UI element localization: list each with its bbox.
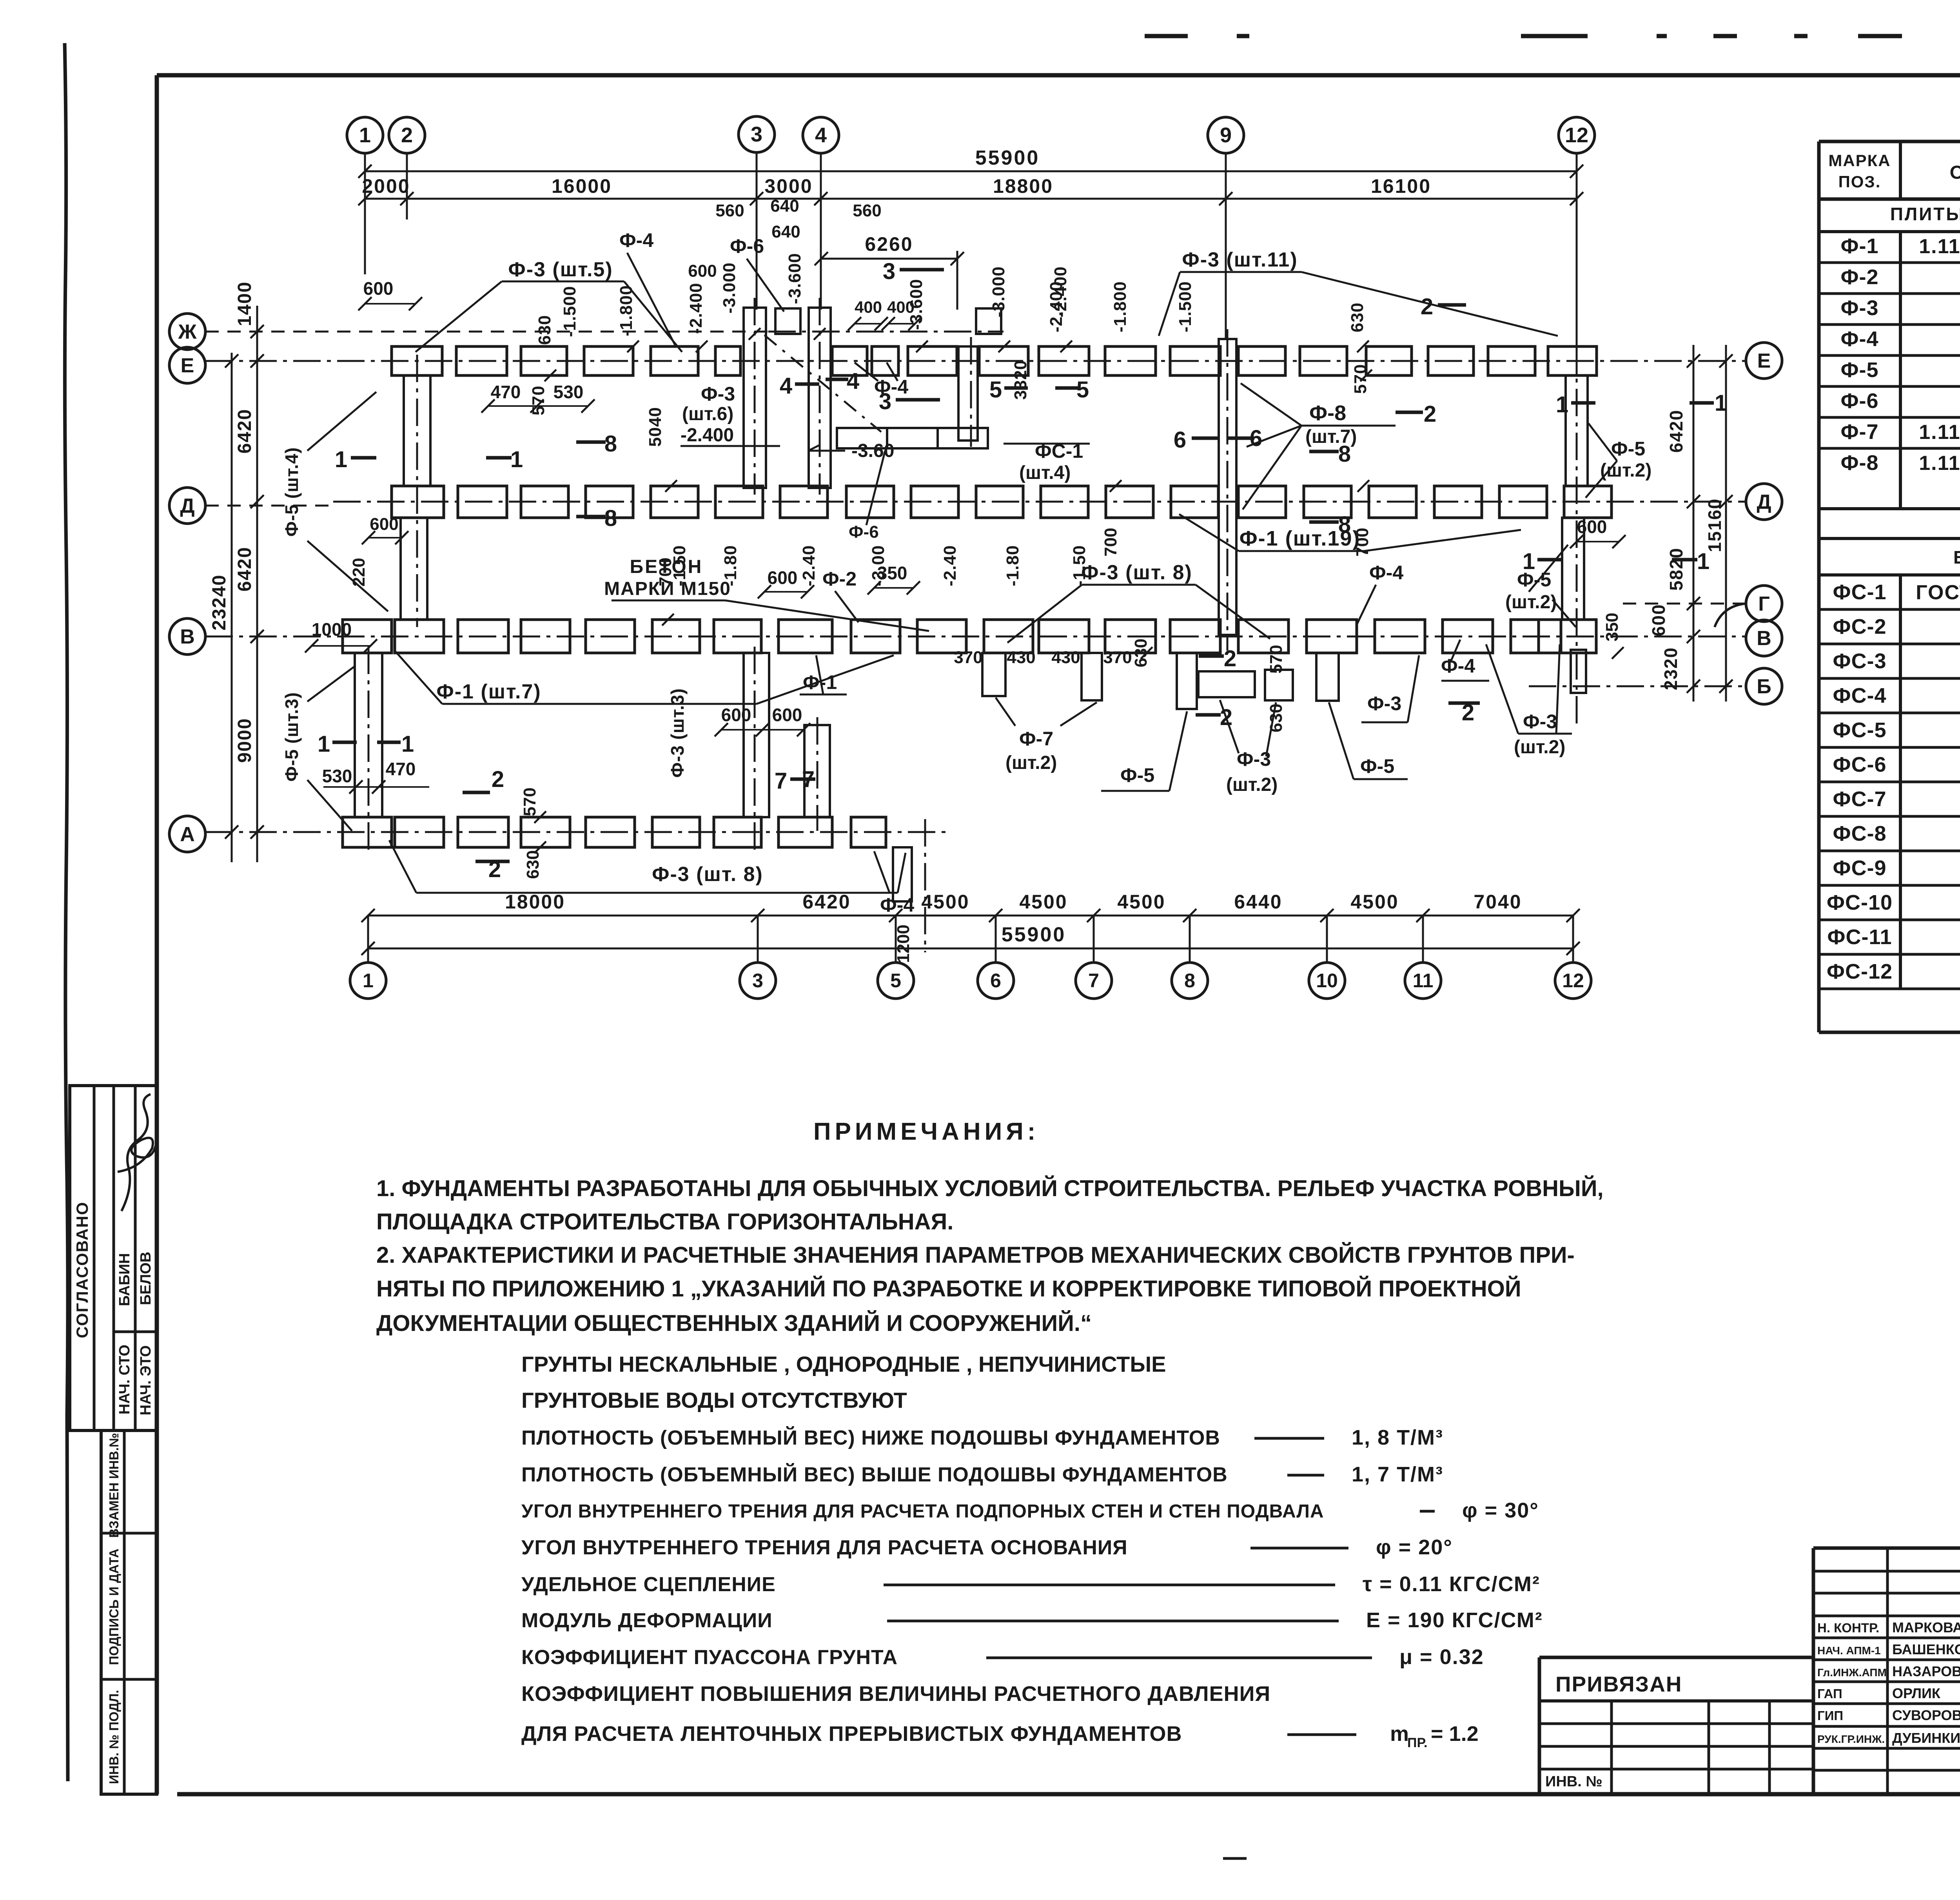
svg-text:220: 220: [349, 558, 368, 586]
svg-text:640: 640: [770, 196, 799, 216]
svg-text:10: 10: [1316, 970, 1338, 992]
svg-text:6420: 6420: [234, 547, 255, 592]
svg-text:-3.000: -3.000: [989, 266, 1008, 317]
svg-text:12: 12: [1565, 123, 1588, 147]
svg-text:НАЧ. АПМ-1: НАЧ. АПМ-1: [1817, 1644, 1881, 1657]
svg-text:1400: 1400: [234, 281, 255, 326]
svg-text:470: 470: [491, 382, 521, 402]
svg-text:НАЗАРОВ: НАЗАРОВ: [1892, 1663, 1960, 1679]
svg-text:6260: 6260: [865, 233, 913, 255]
svg-text:4: 4: [847, 368, 859, 394]
svg-text:4500: 4500: [1350, 891, 1399, 913]
svg-text:350: 350: [877, 563, 907, 583]
svg-text:12: 12: [1562, 970, 1584, 992]
svg-text:Ф-3 (шт.3): Ф-3 (шт.3): [667, 688, 688, 778]
svg-text:В: В: [1757, 627, 1771, 650]
svg-text:Ф-6: Ф-6: [849, 522, 879, 542]
svg-text:11: 11: [1413, 970, 1434, 992]
svg-text:А: А: [180, 823, 195, 846]
svg-text:1.112-5 вып. 1: 1.112-5 вып. 1: [1919, 235, 1960, 258]
svg-text:ИНВ. №: ИНВ. №: [1545, 1773, 1602, 1790]
svg-text:СОГЛАСОВАНО: СОГЛАСОВАНО: [73, 1202, 91, 1338]
svg-text:-1.800: -1.800: [617, 285, 636, 336]
svg-text:УГОЛ ВНУТРЕННЕГО ТРЕНИЯ ДЛЯ: УГОЛ ВНУТРЕННЕГО ТРЕНИЯ ДЛЯ РАСЧЕТА ОСНО…: [521, 1536, 1128, 1559]
svg-text:Ф-3 (шт.5): Ф-3 (шт.5): [508, 258, 613, 281]
svg-text:1: 1: [1715, 390, 1727, 416]
svg-text:m: m: [1390, 1722, 1409, 1746]
svg-text:Ф-4: Ф-4: [1369, 562, 1403, 584]
svg-text:φ = 30°: φ = 30°: [1462, 1499, 1539, 1522]
svg-text:БЕТОН: БЕТОН: [630, 557, 703, 577]
svg-text:8: 8: [1338, 441, 1351, 467]
svg-text:ФС-7: ФС-7: [1833, 787, 1886, 811]
svg-text:4: 4: [780, 373, 792, 399]
svg-text:-1.500: -1.500: [560, 286, 579, 337]
svg-text:600: 600: [1577, 517, 1607, 537]
svg-text:630: 630: [523, 850, 543, 879]
svg-text:Ф-4: Ф-4: [880, 894, 914, 916]
svg-text:Ф-7: Ф-7: [1840, 420, 1878, 444]
svg-text:Ф-3 (шт.11): Ф-3 (шт.11): [1182, 248, 1298, 271]
svg-text:ФС-4: ФС-4: [1833, 684, 1886, 707]
svg-text:5: 5: [890, 970, 901, 992]
svg-text:Ф-4: Ф-4: [619, 229, 653, 251]
svg-text:1. ФУНДАМЕНТЫ РАЗРАБОТАНЫ ДЛ: 1. ФУНДАМЕНТЫ РАЗРАБОТАНЫ ДЛЯ ОБЫЧНЫХ УС…: [376, 1176, 1604, 1201]
svg-text:2: 2: [401, 123, 413, 147]
svg-text:16000: 16000: [552, 175, 612, 197]
svg-text:1, 7 Т/М³: 1, 7 Т/М³: [1352, 1463, 1443, 1486]
svg-text:ПОДПИСЬ И ДАТА: ПОДПИСЬ И ДАТА: [107, 1548, 121, 1665]
svg-text:Ф-3: Ф-3: [1367, 693, 1401, 714]
svg-text:Ф-4: Ф-4: [1840, 327, 1878, 351]
svg-text:Ф-5 (шт.4): Ф-5 (шт.4): [281, 447, 302, 537]
svg-text:Ф-3: Ф-3: [1237, 748, 1271, 770]
svg-text:КОЭФФИЦИЕНТ ПОВЫШЕНИЯ ВЕЛИЧИ: КОЭФФИЦИЕНТ ПОВЫШЕНИЯ ВЕЛИЧИНЫ РАСЧЕТНОГ…: [521, 1682, 1270, 1706]
svg-text:Ф-5: Ф-5: [1360, 755, 1394, 777]
svg-text:Ф-7: Ф-7: [1019, 728, 1053, 750]
svg-text:5820: 5820: [1666, 548, 1686, 591]
svg-text:БЕЛОВ: БЕЛОВ: [138, 1252, 154, 1305]
svg-text:-2.400: -2.400: [686, 283, 706, 334]
svg-text:МАРКИ М150: МАРКИ М150: [604, 578, 731, 599]
svg-text:ИНВ. № ПОДЛ.: ИНВ. № ПОДЛ.: [107, 1690, 121, 1784]
svg-text:470: 470: [386, 759, 416, 779]
svg-text:1.112-5 вып. 2: 1.112-5 вып. 2: [1919, 421, 1960, 444]
svg-text:ДУБИНКИН: ДУБИНКИН: [1892, 1730, 1960, 1746]
svg-text:430: 430: [1051, 648, 1080, 667]
svg-text:Е: Е: [181, 354, 194, 377]
svg-text:600: 600: [768, 567, 798, 588]
svg-text:-1.80: -1.80: [1003, 545, 1022, 586]
svg-text:Ф-4: Ф-4: [1441, 655, 1475, 677]
svg-text:ГРУНТЫ НЕСКАЛЬНЫЕ , ОДНОРОДНЫ: ГРУНТЫ НЕСКАЛЬНЫЕ , ОДНОРОДНЫЕ , НЕПУЧИН…: [521, 1352, 1166, 1376]
svg-text:1: 1: [510, 447, 523, 472]
svg-text:ГРУНТОВЫЕ ВОДЫ ОТСУТСТВУЮТ: ГРУНТОВЫЕ ВОДЫ ОТСУТСТВУЮТ: [521, 1388, 907, 1412]
svg-text:Гл.ИНЖ.АПМ: Гл.ИНЖ.АПМ: [1817, 1666, 1887, 1679]
svg-text:Ф-2: Ф-2: [1840, 265, 1878, 289]
svg-text:2: 2: [1220, 705, 1232, 730]
svg-text:570: 570: [1267, 645, 1286, 673]
svg-text:3320: 3320: [1011, 360, 1030, 400]
svg-text:ПОЗ.: ПОЗ.: [1838, 172, 1881, 191]
svg-text:(шт.6): (шт.6): [682, 404, 733, 424]
svg-text:1: 1: [1556, 392, 1568, 417]
svg-text:Ф-6: Ф-6: [730, 235, 764, 257]
svg-text:2000: 2000: [362, 175, 410, 197]
svg-text:370: 370: [954, 648, 982, 667]
svg-text:430: 430: [1007, 648, 1035, 667]
svg-text:φ = 20°: φ = 20°: [1376, 1536, 1453, 1559]
svg-text:ОРЛИК: ОРЛИК: [1892, 1685, 1941, 1701]
svg-text:МАРКА: МАРКА: [1828, 151, 1891, 170]
svg-text:1: 1: [318, 731, 330, 757]
svg-text:Н. КОНТР.: Н. КОНТР.: [1817, 1621, 1879, 1635]
svg-text:6420: 6420: [234, 409, 255, 454]
svg-text:1000: 1000: [312, 619, 352, 640]
svg-text:Ф-5: Ф-5: [1611, 438, 1645, 460]
svg-text:СУВОРОВ: СУВОРОВ: [1892, 1707, 1960, 1723]
svg-text:630: 630: [1348, 303, 1367, 332]
svg-text:3: 3: [879, 389, 891, 414]
svg-text:-1.500: -1.500: [1176, 281, 1195, 332]
svg-text:Ф-5: Ф-5: [1840, 358, 1878, 382]
svg-text:Ф-2: Ф-2: [822, 568, 857, 590]
svg-text:-2.400: -2.400: [1047, 281, 1066, 332]
svg-text:1: 1: [335, 447, 347, 472]
svg-text:Ф-5: Ф-5: [1120, 764, 1154, 786]
svg-text:Ф-3 (шт. 8): Ф-3 (шт. 8): [652, 863, 763, 886]
svg-text:(шт.4): (шт.4): [1019, 462, 1071, 483]
svg-text:6440: 6440: [1234, 891, 1282, 913]
svg-text:ПЛИТЫ ЖЕЛЕЗОБЕТОННЫЕ ДЛЯ ЛЕ: ПЛИТЫ ЖЕЛЕЗОБЕТОННЫЕ ДЛЯ ЛЕНТОЧНЫХ ФУНДА…: [1890, 204, 1960, 224]
svg-text:ФС-2: ФС-2: [1833, 615, 1886, 638]
svg-text:ВЗАМЕН ИНВ.№: ВЗАМЕН ИНВ.№: [107, 1433, 121, 1538]
svg-text:1: 1: [359, 123, 371, 147]
svg-text:Б: Б: [1757, 675, 1771, 698]
svg-text:ФС-1: ФС-1: [1833, 580, 1886, 604]
svg-text:8: 8: [1184, 970, 1195, 992]
svg-text:Е = 190 КГС/СМ²: Е = 190 КГС/СМ²: [1366, 1608, 1543, 1632]
svg-text:(шт.2): (шт.2): [1514, 737, 1565, 758]
svg-text:ФС-9: ФС-9: [1833, 856, 1886, 880]
svg-text:600: 600: [772, 705, 802, 725]
svg-text:Ф-3 (шт. 8): Ф-3 (шт. 8): [1081, 561, 1192, 584]
svg-text:Ф-1: Ф-1: [1840, 234, 1878, 258]
svg-text:6: 6: [1174, 427, 1186, 453]
svg-text:3: 3: [751, 123, 762, 146]
svg-text:Ф-5 (шт.3): Ф-5 (шт.3): [281, 692, 302, 782]
svg-text:18800: 18800: [993, 175, 1053, 197]
svg-text:ГОСТ 13579-78: ГОСТ 13579-78: [1916, 581, 1960, 604]
svg-text:3000: 3000: [764, 175, 813, 197]
svg-text:8: 8: [604, 506, 617, 531]
svg-text:640: 640: [771, 222, 800, 241]
svg-text:μ = 0.32: μ = 0.32: [1399, 1645, 1484, 1669]
svg-text:55900: 55900: [975, 147, 1040, 169]
svg-text:-3.600: -3.600: [907, 279, 926, 330]
svg-text:570: 570: [520, 787, 539, 816]
svg-text:УДЕЛЬНОЕ СЦЕПЛЕНИЕ: УДЕЛЬНОЕ СЦЕПЛЕНИЕ: [521, 1573, 776, 1596]
svg-text:ПРИВЯЗАН: ПРИВЯЗАН: [1555, 1672, 1682, 1696]
svg-text:6: 6: [990, 970, 1001, 992]
svg-text:Ф-8: Ф-8: [1309, 401, 1346, 425]
svg-text:НАЧ. ЭТО: НАЧ. ЭТО: [138, 1345, 154, 1416]
svg-text:1: 1: [1697, 549, 1710, 574]
svg-text:4500: 4500: [1019, 891, 1067, 913]
svg-text:370: 370: [1103, 648, 1132, 667]
svg-text:1.112-5 вып. 4: 1.112-5 вып. 4: [1919, 452, 1960, 475]
svg-text:7040: 7040: [1474, 891, 1522, 913]
svg-text:2: 2: [1424, 401, 1436, 427]
svg-text:= 1.2: = 1.2: [1431, 1722, 1479, 1746]
svg-text:600: 600: [688, 261, 717, 281]
svg-text:-1.800: -1.800: [1111, 281, 1130, 332]
svg-text:-3.60: -3.60: [851, 441, 894, 461]
svg-text:МАРКОВА: МАРКОВА: [1892, 1619, 1960, 1635]
svg-text:ФС-11: ФС-11: [1827, 925, 1892, 949]
svg-text:2: 2: [492, 767, 504, 792]
svg-text:350: 350: [1602, 613, 1622, 641]
svg-text:(шт.2): (шт.2): [1505, 592, 1557, 613]
svg-text:Ж: Ж: [178, 321, 197, 343]
svg-text:5: 5: [989, 377, 1002, 402]
svg-text:2. ХАРАКТЕРИСТИКИ И РАСЧЕТНЫ: 2. ХАРАКТЕРИСТИКИ И РАСЧЕТНЫЕ ЗНАЧЕНИЯ П…: [376, 1242, 1575, 1268]
svg-text:ДОКУМЕНТАЦИИ ОБЩЕСТВЕННЫХ ЗД: ДОКУМЕНТАЦИИ ОБЩЕСТВЕННЫХ ЗДАНИЙ И СООРУ…: [376, 1311, 1092, 1336]
svg-text:5040: 5040: [646, 407, 665, 447]
svg-text:ГАП: ГАП: [1817, 1686, 1842, 1701]
svg-text:(шт.2): (шт.2): [1005, 752, 1057, 773]
svg-text:Ф-3: Ф-3: [1523, 711, 1557, 732]
svg-text:ДЛЯ РАСЧЕТА ЛЕНТОЧНЫХ ПРЕРЫ: ДЛЯ РАСЧЕТА ЛЕНТОЧНЫХ ПРЕРЫВИСТЫХ ФУНДАМ…: [521, 1722, 1182, 1746]
svg-text:700: 700: [1101, 528, 1120, 557]
svg-text:Ф-1 (шт.7): Ф-1 (шт.7): [436, 680, 541, 703]
svg-text:1: 1: [363, 970, 374, 992]
svg-text:τ = 0.11 КГС/СМ²: τ = 0.11 КГС/СМ²: [1363, 1572, 1540, 1596]
svg-text:ФС-3: ФС-3: [1833, 649, 1886, 673]
svg-text:2320: 2320: [1661, 647, 1681, 690]
svg-text:9: 9: [1220, 123, 1232, 147]
svg-text:23240: 23240: [209, 574, 230, 630]
svg-text:-3.600: -3.600: [785, 253, 804, 304]
svg-text:2: 2: [1224, 646, 1236, 671]
svg-text:Ф-6: Ф-6: [1840, 389, 1878, 413]
svg-text:БЛОКИ БЕТОННЫЕ ДЛЯ СТЕН ПО: БЛОКИ БЕТОННЫЕ ДЛЯ СТЕН ПОДВАЛОВ: [1953, 547, 1960, 567]
svg-text:Ф-3: Ф-3: [1840, 296, 1878, 320]
svg-text:Д: Д: [1757, 491, 1771, 513]
svg-text:-3.000: -3.000: [720, 262, 739, 314]
svg-text:560: 560: [853, 201, 881, 220]
svg-text:600: 600: [1648, 604, 1669, 636]
svg-text:4500: 4500: [921, 891, 969, 913]
svg-text:55900: 55900: [1002, 923, 1066, 946]
svg-text:6420: 6420: [1666, 410, 1686, 453]
svg-text:ФС-6: ФС-6: [1833, 753, 1886, 776]
svg-text:3: 3: [883, 259, 895, 284]
svg-text:БАБИН: БАБИН: [116, 1253, 133, 1306]
svg-text:9000: 9000: [234, 718, 255, 763]
svg-text:РУК.ГР.ИНЖ.: РУК.ГР.ИНЖ.: [1817, 1733, 1885, 1745]
svg-text:2: 2: [1421, 294, 1433, 319]
svg-text:ФС-8: ФС-8: [1833, 822, 1886, 845]
svg-text:-2.40: -2.40: [799, 545, 818, 586]
svg-text:ГИП: ГИП: [1817, 1708, 1843, 1723]
svg-text:1: 1: [1523, 549, 1535, 574]
svg-text:4500: 4500: [1117, 891, 1165, 913]
svg-text:18000: 18000: [505, 891, 565, 913]
svg-text:530: 530: [322, 766, 352, 786]
svg-text:570: 570: [1351, 364, 1370, 394]
svg-text:Д: Д: [180, 495, 194, 517]
svg-text:400: 400: [855, 298, 882, 316]
svg-text:ПЛОТНОСТЬ (ОБЪЕМНЫЙ ВЕС) ВЫШЕ: ПЛОТНОСТЬ (ОБЪЕМНЫЙ ВЕС) ВЫШЕ ПОДОШВЫ ФУ…: [521, 1463, 1228, 1486]
svg-text:3: 3: [752, 970, 763, 992]
svg-text:8: 8: [604, 431, 617, 457]
svg-text:530: 530: [554, 382, 584, 402]
svg-text:1, 8 Т/М³: 1, 8 Т/М³: [1352, 1426, 1443, 1449]
svg-text:1: 1: [401, 731, 414, 757]
svg-text:1200: 1200: [894, 925, 913, 963]
svg-text:-2.400: -2.400: [681, 425, 734, 446]
svg-text:НАЧ. СТО: НАЧ. СТО: [116, 1345, 133, 1414]
svg-text:600: 600: [721, 705, 751, 725]
svg-text:ОБОЗНАЧЕНИЕ: ОБОЗНАЧЕНИЕ: [1950, 162, 1960, 183]
svg-text:Ф-3: Ф-3: [701, 383, 735, 405]
svg-text:МОДУЛЬ ДЕФОРМАЦИИ: МОДУЛЬ ДЕФОРМАЦИИ: [521, 1609, 773, 1632]
svg-text:Ф-8: Ф-8: [1840, 451, 1878, 475]
svg-text:ФС-12: ФС-12: [1827, 960, 1893, 983]
svg-text:7: 7: [775, 768, 787, 794]
svg-text:8: 8: [1338, 512, 1351, 537]
svg-text:НЯТЫ ПО ПРИЛОЖЕНИЮ 1 „УКАЗАНИ: НЯТЫ ПО ПРИЛОЖЕНИЮ 1 „УКАЗАНИЙ ПО РАЗРАБ…: [376, 1276, 1521, 1302]
svg-text:ПР.: ПР.: [1407, 1735, 1427, 1750]
svg-text:560: 560: [715, 201, 744, 220]
svg-text:ПЛОЩАДКА СТРОИТЕЛЬСТВА ГОРИЗО: ПЛОЩАДКА СТРОИТЕЛЬСТВА ГОРИЗОНТАЛЬНАЯ.: [376, 1209, 953, 1235]
svg-text:ФС-5: ФС-5: [1833, 718, 1886, 742]
svg-text:15160: 15160: [1704, 498, 1725, 552]
svg-text:ПЛОТНОСТЬ (ОБЪЕМНЫЙ ВЕС) НИЖЕ: ПЛОТНОСТЬ (ОБЪЕМНЫЙ ВЕС) НИЖЕ ПОДОШВЫ ФУ…: [521, 1426, 1220, 1449]
svg-text:ПРИМЕЧАНИЯ:: ПРИМЕЧАНИЯ:: [813, 1118, 1039, 1145]
svg-text:-2.40: -2.40: [940, 545, 960, 586]
svg-text:600: 600: [363, 278, 394, 299]
svg-text:630: 630: [1267, 703, 1286, 732]
svg-text:В: В: [180, 625, 195, 648]
svg-text:(шт.2): (шт.2): [1226, 774, 1278, 795]
svg-text:7: 7: [1088, 970, 1099, 992]
svg-text:ФС-10: ФС-10: [1827, 891, 1893, 914]
svg-text:УГОЛ ВНУТРЕННЕГО ТРЕНИЯ ДЛЯ РА: УГОЛ ВНУТРЕННЕГО ТРЕНИЯ ДЛЯ РАСЧЕТА ПОДП…: [521, 1501, 1324, 1522]
svg-text:16100: 16100: [1371, 175, 1431, 197]
svg-text:Г: Г: [1758, 593, 1769, 615]
svg-text:4: 4: [815, 123, 827, 147]
svg-text:Е: Е: [1757, 350, 1771, 372]
svg-text:БАШЕНКОВ: БАШЕНКОВ: [1892, 1641, 1960, 1657]
svg-text:6420: 6420: [802, 891, 851, 913]
svg-text:КОЭФФИЦИЕНТ ПУАССОНА ГРУНТА: КОЭФФИЦИЕНТ ПУАССОНА ГРУНТА: [521, 1646, 898, 1669]
svg-text:630: 630: [535, 315, 554, 345]
